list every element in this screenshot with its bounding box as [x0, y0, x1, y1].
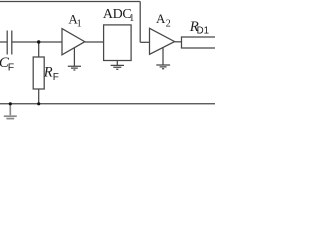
svg-text:2: 2	[166, 19, 171, 30]
svg-text:1: 1	[77, 19, 82, 30]
wire top horizontal	[0, 1, 140, 3]
svg-text:D1: D1	[197, 26, 209, 37]
node junction bus at RF	[37, 102, 40, 105]
wire junction stub down to RF	[38, 42, 40, 57]
op-amp A2	[150, 28, 175, 54]
svg-text:1: 1	[129, 13, 134, 24]
svg-text:F: F	[8, 62, 14, 74]
wire top vertical drop	[139, 2, 141, 43]
node junction at CF/RF	[37, 40, 40, 43]
node junction bus left	[9, 102, 12, 105]
svg-text:A: A	[156, 11, 166, 26]
ADC1 box	[104, 25, 132, 61]
ground under A2	[156, 48, 170, 69]
wire A2 output to RD1	[175, 41, 182, 43]
resistor RF body	[33, 57, 44, 89]
resistor RD1 body	[182, 37, 217, 48]
ground under A1	[68, 48, 81, 70]
ground under ADC1	[111, 61, 124, 70]
wire left input to capacitor	[0, 41, 7, 43]
wire ground bus	[0, 103, 215, 105]
svg-text:ADC: ADC	[103, 7, 132, 22]
wire A1 output to ADC	[85, 41, 104, 43]
wire connector into A2 input	[140, 41, 149, 43]
wire RF bottom to ground bus	[38, 89, 40, 104]
op-amp A1	[62, 29, 85, 55]
svg-text:F: F	[53, 72, 59, 83]
wire capacitor to A1 input	[12, 41, 62, 43]
ground symbol bottom left	[4, 104, 17, 119]
capacitor CF plates	[7, 31, 12, 55]
svg-text:R: R	[43, 64, 53, 80]
